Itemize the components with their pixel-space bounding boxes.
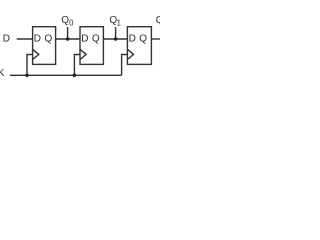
wire clock riser U2 bbox=[74, 55, 80, 76]
wire D input to U1 bbox=[17, 38, 33, 40]
svg-text:D: D bbox=[129, 34, 136, 45]
svg-text:Q: Q bbox=[139, 34, 147, 45]
flip-flop U3 box bbox=[127, 27, 151, 65]
svg-text:Q: Q bbox=[61, 15, 69, 26]
svg-text:1: 1 bbox=[117, 18, 121, 27]
wire Q1 tap bbox=[115, 27, 117, 39]
junction dot clock U1 bbox=[25, 74, 29, 78]
clock edge triangle U1 bbox=[33, 49, 39, 59]
svg-text:D: D bbox=[3, 34, 10, 45]
wire clock riser U3 bbox=[122, 55, 128, 76]
svg-text:0: 0 bbox=[69, 18, 74, 27]
svg-text:Q: Q bbox=[45, 34, 53, 45]
wire Q0 tap bbox=[67, 27, 69, 39]
flip-flop U1 box bbox=[33, 27, 56, 65]
flip-flop U2 box bbox=[80, 27, 103, 65]
clock edge triangle U2 bbox=[80, 49, 86, 59]
wire U3 Q to right edge bbox=[151, 38, 160, 40]
junction dot Q1 bbox=[114, 37, 118, 41]
wire clock riser U1 bbox=[27, 55, 33, 76]
junction dot Q0 bbox=[66, 37, 70, 41]
wire clock bus bbox=[10, 74, 122, 76]
svg-text:D: D bbox=[34, 34, 41, 45]
svg-text:K: K bbox=[0, 68, 5, 79]
svg-text:Q: Q bbox=[156, 15, 160, 26]
svg-text:Q: Q bbox=[92, 34, 100, 45]
junction dot clock U2 bbox=[73, 74, 77, 78]
svg-text:D: D bbox=[81, 34, 88, 45]
clock edge triangle U3 bbox=[127, 49, 133, 59]
wire U1 Q to U2 D bbox=[56, 38, 80, 40]
wire U2 Q to U3 D bbox=[103, 38, 127, 40]
